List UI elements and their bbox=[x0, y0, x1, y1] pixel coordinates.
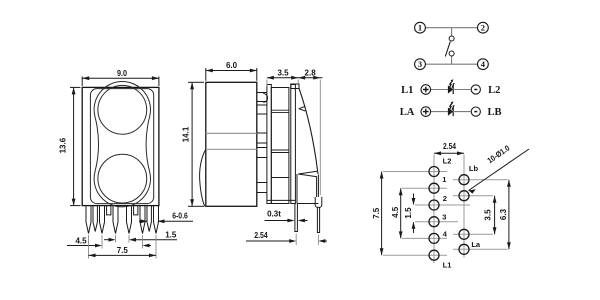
svg-text:6.3: 6.3 bbox=[499, 208, 508, 220]
tabs on right of body bbox=[257, 93, 267, 193]
svg-text:9.0: 9.0 bbox=[117, 69, 127, 78]
contact lower bbox=[449, 51, 454, 56]
svg-text:2.54: 2.54 bbox=[443, 142, 456, 151]
dim 6.3 right bbox=[508, 180, 510, 250]
svg-text:6.0: 6.0 bbox=[226, 61, 238, 70]
svg-text:3: 3 bbox=[418, 59, 422, 69]
dim 0.3t bbox=[265, 220, 294, 222]
stub from wire1 to contact bbox=[451, 28, 453, 37]
lever bbox=[445, 42, 450, 57]
dim 4.5 pins 2-5 bbox=[102, 235, 143, 249]
dim 2.54 top bbox=[434, 152, 464, 154]
pin 1 bbox=[86, 206, 91, 234]
body rect bbox=[206, 82, 257, 206]
contact upper bbox=[449, 36, 454, 41]
svg-text:7.5: 7.5 bbox=[372, 207, 381, 219]
svg-text:14.1: 14.1 bbox=[181, 126, 190, 142]
pin 6 bbox=[154, 206, 159, 234]
pin 4 bbox=[127, 206, 132, 234]
terminal 1 bbox=[415, 22, 426, 33]
dim 6-0.6 pin width bbox=[139, 220, 193, 222]
dim 3.5 right bbox=[494, 196, 496, 235]
dim 13.6 bbox=[70, 87, 81, 205]
svg-text:LA: LA bbox=[400, 107, 415, 118]
plate 2 bbox=[291, 85, 296, 204]
holes left column bbox=[429, 167, 469, 261]
dim 2.54 (side) bbox=[296, 234, 318, 246]
LED lens circle bottom bbox=[98, 154, 147, 203]
stub contact to wire2 bbox=[451, 56, 453, 64]
row lines left column bbox=[383, 172, 508, 256]
leg 2 with shoulder bbox=[315, 197, 322, 207]
svg-text:3.5: 3.5 bbox=[277, 69, 289, 78]
svg-text:4.5: 4.5 bbox=[75, 237, 87, 246]
svg-text:2: 2 bbox=[443, 194, 447, 203]
pin 5 bbox=[140, 206, 145, 234]
svg-text:6-0.6: 6-0.6 bbox=[172, 212, 188, 221]
dim 7.5 left bbox=[381, 172, 383, 256]
back stub B bbox=[134, 206, 138, 215]
dim 14.1 bbox=[188, 82, 204, 206]
svg-text:1.5: 1.5 bbox=[404, 207, 413, 219]
svg-text:2.54: 2.54 bbox=[254, 231, 268, 240]
svg-text:4: 4 bbox=[443, 229, 448, 238]
switch body bbox=[271, 88, 289, 204]
dim 9.0 bbox=[82, 77, 159, 87]
terminal 4 bbox=[478, 59, 489, 70]
column centerlines bbox=[433, 155, 435, 264]
LED lens circle top bbox=[98, 85, 147, 134]
wire 1-2 bbox=[425, 27, 478, 29]
svg-text:Lb: Lb bbox=[469, 164, 479, 173]
clip barb lower bbox=[298, 171, 317, 177]
svg-text:0.3t: 0.3t bbox=[267, 210, 281, 219]
body internal line 1 bbox=[206, 132, 257, 134]
LED symbol bbox=[448, 85, 453, 93]
dim 7.5 pins 1-6 bbox=[89, 235, 157, 259]
lens arc on left bbox=[200, 149, 206, 206]
svg-text:2.8: 2.8 bbox=[305, 69, 317, 78]
back pin right tapered bbox=[147, 206, 151, 232]
dim 6.0 bbox=[206, 68, 257, 81]
terminal 2 bbox=[478, 22, 489, 33]
pin 2 bbox=[100, 206, 105, 234]
clip barb upper bbox=[299, 106, 306, 111]
svg-text:L2: L2 bbox=[443, 156, 452, 165]
dim 1.5 bbox=[413, 194, 415, 205]
svg-text:3: 3 bbox=[442, 213, 446, 222]
svg-text:1: 1 bbox=[418, 22, 422, 32]
svg-text:4.5: 4.5 bbox=[391, 206, 400, 218]
svg-text:4: 4 bbox=[481, 59, 486, 69]
svg-text:L2: L2 bbox=[488, 85, 500, 96]
leader 10-d1.0 bbox=[469, 149, 530, 191]
svg-text:2: 2 bbox=[481, 22, 485, 32]
top block bbox=[291, 84, 299, 89]
leg 1 (0.3t) bbox=[295, 204, 298, 232]
holes right column bbox=[459, 175, 469, 185]
outer housing rectangle bbox=[82, 87, 159, 205]
wire 3-4 bbox=[425, 63, 478, 65]
svg-text:10-Ø1.0: 10-Ø1.0 bbox=[486, 143, 512, 165]
body internal line 2 bbox=[206, 148, 257, 150]
dim 4.5 bbox=[400, 188, 402, 238]
terminal 3 bbox=[415, 59, 426, 70]
back stub A bbox=[107, 206, 111, 215]
svg-text:13.6: 13.6 bbox=[59, 137, 68, 153]
svg-text:3.5: 3.5 bbox=[483, 209, 492, 221]
back pin left tapered bbox=[93, 206, 97, 232]
pin 3 bbox=[113, 206, 118, 234]
svg-text:L1: L1 bbox=[401, 85, 413, 96]
svg-text:1: 1 bbox=[442, 175, 446, 184]
bottom band bbox=[267, 199, 296, 201]
svg-text:1.5: 1.5 bbox=[165, 231, 177, 240]
dim 1.5 between pins 3-4 bbox=[116, 235, 130, 243]
svg-text:La: La bbox=[471, 240, 481, 249]
dims 3.5 / 2.8 bbox=[267, 80, 320, 196]
inner opening rounded rect bbox=[90, 89, 153, 204]
hole crosshair redraw bbox=[430, 167, 439, 176]
plate 1 bbox=[267, 85, 271, 204]
row lines right column bbox=[453, 179, 508, 181]
pins: front row tapered bbox=[86, 206, 159, 234]
svg-text:LB: LB bbox=[487, 107, 501, 118]
svg-text:7.5: 7.5 bbox=[117, 246, 129, 255]
svg-text:L1: L1 bbox=[443, 260, 452, 269]
peanut bezel outline bbox=[94, 82, 150, 207]
hook tab bbox=[263, 94, 267, 103]
clip body bbox=[297, 174, 318, 204]
clip slant bbox=[299, 88, 318, 174]
